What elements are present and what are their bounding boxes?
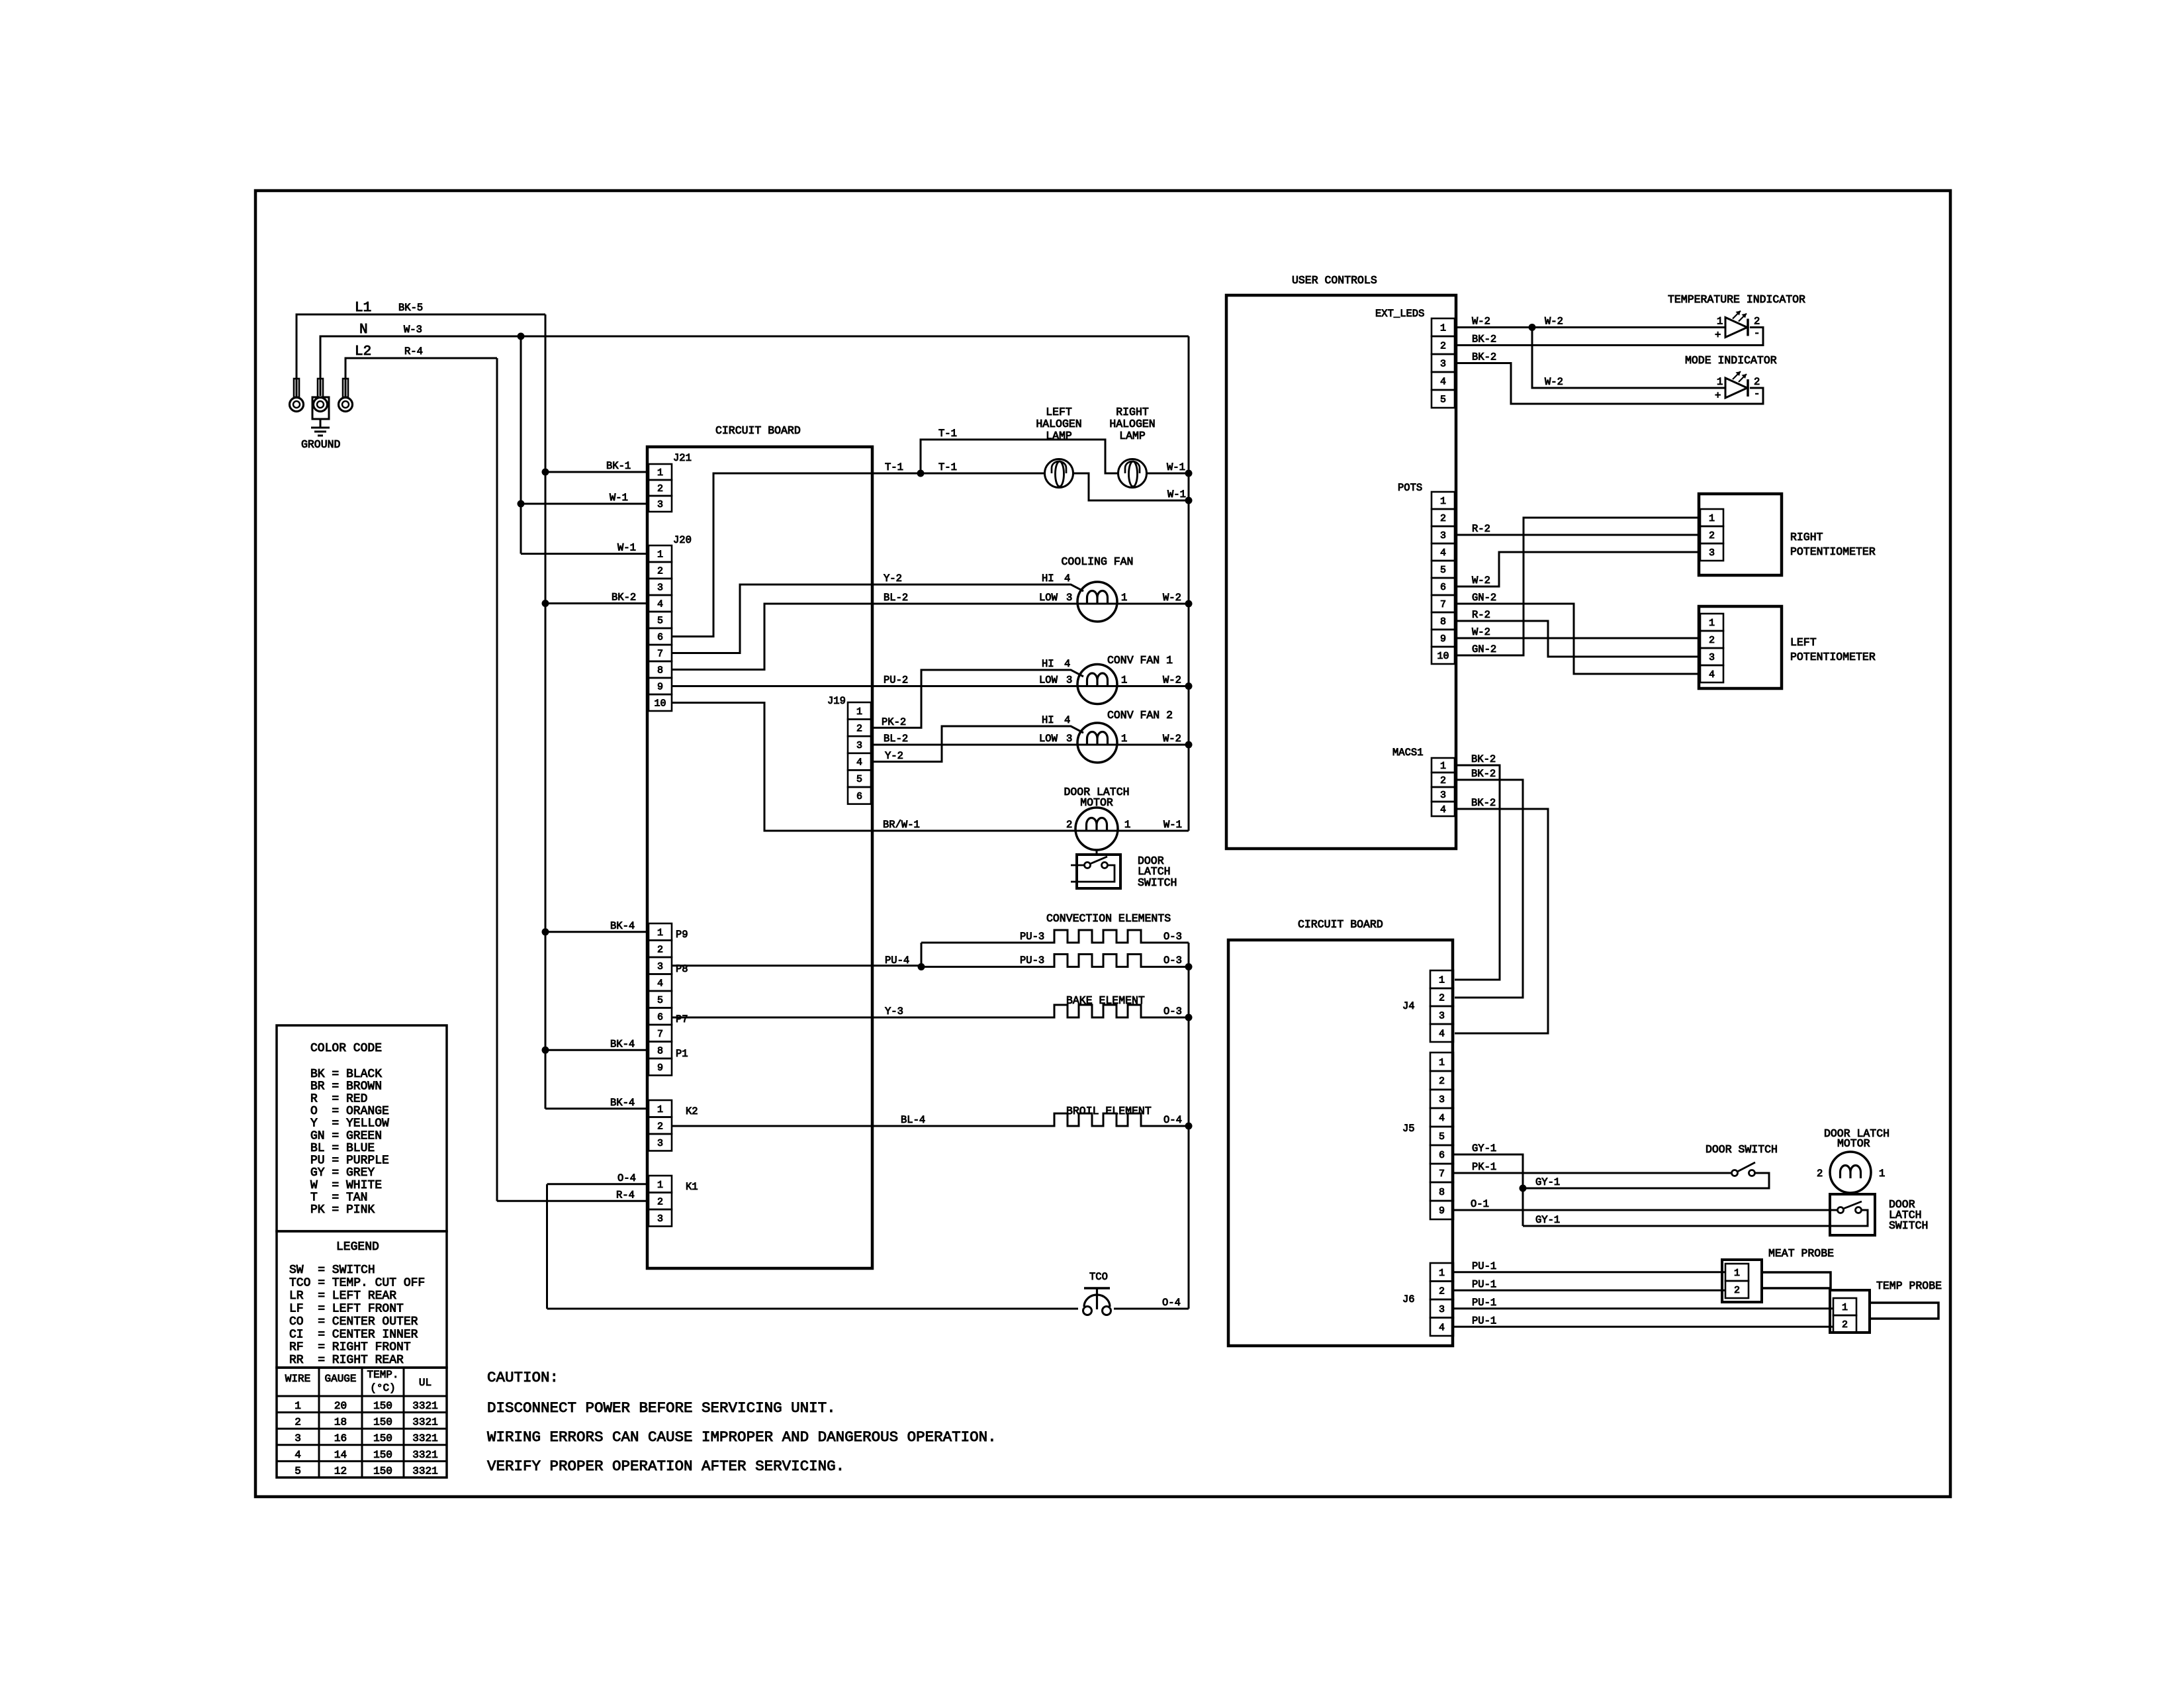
svg-text:P7: P7: [676, 1013, 688, 1025]
svg-text:8: 8: [657, 665, 663, 677]
svg-text:BK-2: BK-2: [1471, 753, 1496, 765]
svg-text:GY = GREY: GY = GREY: [310, 1166, 375, 1180]
svg-text:LEFT: LEFT: [1046, 406, 1072, 418]
svg-text:1: 1: [1121, 733, 1127, 745]
svg-text:2: 2: [856, 723, 862, 734]
svg-text:WIRE: WIRE: [285, 1373, 310, 1385]
svg-text:CIRCUIT BOARD: CIRCUIT BOARD: [715, 424, 801, 437]
svg-text:4: 4: [1064, 658, 1070, 670]
svg-text:PU-1: PU-1: [1472, 1297, 1496, 1309]
svg-text:+: +: [1715, 390, 1721, 402]
svg-text:5: 5: [657, 616, 663, 627]
svg-text:CI = CENTER INNER: CI = CENTER INNER: [289, 1328, 418, 1341]
svg-text:Y = YELLOW: Y = YELLOW: [310, 1117, 389, 1131]
svg-text:WIRING ERRORS CAN CAUSE IMPROP: WIRING ERRORS CAN CAUSE IMPROPER AND DAN…: [487, 1429, 997, 1446]
svg-text:N: N: [359, 322, 368, 338]
svg-text:T-1: T-1: [885, 461, 903, 473]
svg-text:J19: J19: [827, 695, 846, 707]
svg-text:UL: UL: [419, 1377, 432, 1389]
svg-text:3: 3: [1440, 359, 1446, 370]
svg-text:W = WHITE: W = WHITE: [310, 1179, 382, 1192]
svg-text:1: 1: [1709, 618, 1715, 629]
svg-text:R = RED: R = RED: [310, 1092, 367, 1105]
svg-text:1: 1: [1717, 316, 1723, 328]
svg-text:TCO = TEMP. CUT OFF: TCO = TEMP. CUT OFF: [289, 1276, 425, 1289]
svg-text:W-2: W-2: [1472, 575, 1490, 586]
svg-text:RIGHT: RIGHT: [1116, 406, 1149, 418]
svg-text:W-2: W-2: [1472, 626, 1490, 638]
svg-text:SWITCH: SWITCH: [1889, 1219, 1928, 1232]
svg-text:O-3: O-3: [1163, 1006, 1182, 1017]
svg-text:+: +: [1715, 330, 1721, 342]
svg-text:3321: 3321: [412, 1400, 437, 1412]
svg-text:TEMP PROBE: TEMP PROBE: [1876, 1280, 1942, 1292]
svg-text:4: 4: [856, 757, 862, 769]
svg-text:5: 5: [1440, 395, 1446, 406]
svg-text:HALOGEN: HALOGEN: [1109, 418, 1155, 430]
svg-text:W-1: W-1: [1167, 489, 1186, 500]
svg-text:3: 3: [657, 583, 663, 594]
svg-text:MODE INDICATOR: MODE INDICATOR: [1685, 354, 1777, 367]
svg-text:POTS: POTS: [1398, 482, 1422, 494]
svg-text:1: 1: [1440, 761, 1446, 772]
svg-text:VERIFY PROPER OPERATION AFTER: VERIFY PROPER OPERATION AFTER SERVICING.: [487, 1458, 844, 1475]
svg-text:TEMP.: TEMP.: [367, 1369, 398, 1381]
svg-text:1: 1: [856, 706, 862, 718]
svg-text:RF = RIGHT FRONT: RF = RIGHT FRONT: [289, 1341, 411, 1354]
svg-text:BK-4: BK-4: [610, 1097, 635, 1109]
svg-text:2: 2: [657, 944, 663, 955]
svg-text:3: 3: [1066, 592, 1072, 604]
svg-text:3: 3: [1440, 790, 1446, 801]
svg-text:4: 4: [1439, 1113, 1445, 1124]
svg-text:PU-1: PU-1: [1472, 1278, 1496, 1290]
svg-text:R-4: R-4: [404, 346, 423, 357]
svg-text:6: 6: [1439, 1150, 1445, 1161]
svg-text:3321: 3321: [412, 1449, 437, 1461]
svg-text:BK-2: BK-2: [1471, 768, 1496, 780]
svg-text:PU-2: PU-2: [884, 675, 908, 686]
svg-text:3: 3: [1439, 1304, 1445, 1315]
svg-text:BK-4: BK-4: [610, 1038, 635, 1050]
svg-text:14: 14: [334, 1449, 347, 1461]
svg-text:1: 1: [1440, 323, 1446, 334]
svg-text:6: 6: [657, 1011, 663, 1023]
svg-text:4: 4: [657, 978, 663, 989]
svg-text:2: 2: [1842, 1319, 1848, 1331]
svg-text:3: 3: [657, 1213, 663, 1225]
svg-text:10: 10: [654, 698, 666, 710]
svg-text:CIRCUIT BOARD: CIRCUIT BOARD: [1298, 918, 1383, 931]
svg-text:2: 2: [1440, 775, 1446, 786]
svg-text:GY-1: GY-1: [1472, 1143, 1496, 1154]
svg-text:7: 7: [1439, 1168, 1445, 1180]
svg-text:5: 5: [856, 774, 862, 785]
svg-text:BK-2: BK-2: [1472, 352, 1496, 363]
svg-text:3: 3: [657, 499, 663, 510]
svg-text:LAMP: LAMP: [1119, 430, 1146, 442]
svg-text:LEGEND: LEGEND: [336, 1241, 379, 1254]
svg-text:2: 2: [657, 566, 663, 577]
svg-text:POTENTIOMETER: POTENTIOMETER: [1790, 651, 1876, 663]
svg-text:LEFT: LEFT: [1790, 636, 1817, 649]
svg-text:5: 5: [295, 1465, 301, 1477]
svg-text:J5: J5: [1402, 1123, 1415, 1135]
svg-text:3: 3: [295, 1432, 301, 1444]
svg-text:1: 1: [1121, 592, 1127, 604]
svg-text:4: 4: [1440, 804, 1446, 816]
svg-text:O-4: O-4: [617, 1172, 636, 1184]
svg-text:HI: HI: [1042, 714, 1054, 726]
svg-text:J4: J4: [1402, 1000, 1415, 1012]
svg-text:Y-3: Y-3: [885, 1006, 903, 1017]
svg-text:COLOR CODE: COLOR CODE: [310, 1042, 382, 1055]
svg-text:1: 1: [1709, 513, 1715, 524]
svg-text:3: 3: [1439, 1011, 1445, 1022]
svg-text:8: 8: [1440, 616, 1446, 628]
svg-text:5: 5: [1439, 1131, 1445, 1143]
svg-text:150: 150: [373, 1432, 392, 1444]
svg-text:PU-1: PU-1: [1472, 1260, 1496, 1272]
svg-text:2: 2: [1066, 819, 1072, 831]
svg-text:3321: 3321: [412, 1417, 437, 1429]
svg-text:3: 3: [856, 740, 862, 751]
svg-text:BK-1: BK-1: [606, 460, 631, 472]
svg-text:USER CONTROLS: USER CONTROLS: [1292, 274, 1377, 287]
svg-text:1: 1: [1124, 819, 1130, 831]
svg-text:COOLING FAN: COOLING FAN: [1062, 555, 1134, 568]
svg-text:DISCONNECT POWER BEFORE SERVIC: DISCONNECT POWER BEFORE SERVICING UNIT.: [487, 1399, 836, 1417]
svg-text:4: 4: [1440, 547, 1446, 559]
svg-text:Y-2: Y-2: [885, 750, 903, 762]
svg-text:2: 2: [1754, 376, 1760, 388]
svg-text:1: 1: [1734, 1268, 1740, 1279]
svg-text:4: 4: [1439, 1322, 1445, 1333]
svg-text:GAUGE: GAUGE: [324, 1373, 356, 1385]
svg-text:7: 7: [657, 1029, 663, 1040]
svg-text:1: 1: [1842, 1302, 1848, 1313]
svg-text:TCO: TCO: [1089, 1271, 1108, 1283]
svg-text:GY-1: GY-1: [1535, 1214, 1560, 1226]
svg-text:2: 2: [657, 1121, 663, 1132]
svg-text:-: -: [1754, 328, 1760, 340]
svg-text:T = TAN: T = TAN: [310, 1192, 367, 1205]
svg-text:2: 2: [1709, 530, 1715, 541]
svg-text:3: 3: [1709, 652, 1715, 663]
svg-text:GN-2: GN-2: [1472, 643, 1496, 655]
svg-text:1: 1: [657, 467, 663, 479]
svg-text:LOW: LOW: [1039, 675, 1058, 686]
svg-text:CAUTION:: CAUTION:: [487, 1369, 559, 1386]
svg-text:PK = PINK: PK = PINK: [310, 1203, 375, 1217]
svg-text:3321: 3321: [412, 1465, 437, 1477]
svg-text:Y-2: Y-2: [884, 573, 902, 585]
svg-text:9: 9: [657, 682, 663, 693]
svg-text:6: 6: [1440, 582, 1446, 593]
svg-text:J6: J6: [1402, 1293, 1415, 1305]
svg-text:150: 150: [373, 1465, 392, 1477]
svg-text:GN-2: GN-2: [1472, 592, 1496, 604]
svg-text:BK-4: BK-4: [610, 920, 635, 932]
svg-text:2: 2: [1734, 1285, 1740, 1296]
svg-text:6: 6: [657, 632, 663, 643]
svg-text:W-1: W-1: [610, 492, 628, 504]
svg-text:GY-1: GY-1: [1535, 1176, 1560, 1188]
svg-text:GN = GREEN: GN = GREEN: [310, 1129, 382, 1143]
svg-text:9: 9: [1440, 633, 1446, 645]
svg-text:3321: 3321: [412, 1432, 437, 1444]
svg-text:R-4: R-4: [616, 1189, 635, 1201]
svg-text:4: 4: [1064, 714, 1070, 726]
svg-text:3: 3: [1439, 1094, 1445, 1105]
svg-text:2: 2: [1754, 316, 1760, 328]
svg-text:(°C): (°C): [370, 1382, 395, 1394]
svg-text:W-1: W-1: [1167, 461, 1185, 473]
svg-text:20: 20: [334, 1400, 347, 1412]
svg-text:T-1: T-1: [938, 428, 957, 440]
svg-text:2: 2: [657, 1196, 663, 1207]
svg-text:1: 1: [295, 1400, 301, 1412]
svg-text:T-1: T-1: [938, 461, 957, 473]
svg-text:GROUND: GROUND: [301, 438, 341, 451]
svg-text:16: 16: [334, 1432, 347, 1444]
svg-text:1: 1: [1439, 1057, 1445, 1068]
svg-text:3: 3: [1440, 530, 1446, 541]
svg-text:R-2: R-2: [1472, 609, 1490, 621]
svg-text:K2: K2: [686, 1105, 698, 1117]
svg-text:O-4: O-4: [1162, 1297, 1181, 1309]
svg-text:W-1: W-1: [617, 542, 636, 554]
svg-text:2: 2: [295, 1417, 301, 1429]
svg-text:MEAT PROBE: MEAT PROBE: [1768, 1247, 1834, 1260]
svg-text:K1: K1: [686, 1181, 698, 1193]
svg-text:J20: J20: [673, 534, 692, 546]
svg-text:EXT_LEDS: EXT_LEDS: [1375, 308, 1424, 320]
svg-text:BK-2: BK-2: [612, 592, 636, 604]
svg-text:O = ORANGE: O = ORANGE: [310, 1105, 389, 1118]
svg-text:1: 1: [1439, 1268, 1445, 1279]
svg-text:O-3: O-3: [1163, 931, 1182, 943]
svg-text:MOTOR: MOTOR: [1837, 1137, 1870, 1150]
svg-text:CONVECTION ELEMENTS: CONVECTION ELEMENTS: [1046, 912, 1171, 925]
svg-text:5: 5: [1440, 565, 1446, 576]
svg-text:P1: P1: [676, 1048, 688, 1060]
svg-text:1: 1: [657, 549, 663, 561]
svg-text:BL = BLUE: BL = BLUE: [310, 1142, 375, 1155]
svg-text:MACS1: MACS1: [1392, 747, 1424, 759]
svg-text:4: 4: [657, 599, 663, 610]
svg-text:BL-4: BL-4: [901, 1114, 925, 1126]
svg-text:PU-3: PU-3: [1020, 955, 1044, 966]
svg-text:3: 3: [657, 1138, 663, 1149]
svg-text:SWITCH: SWITCH: [1138, 876, 1177, 889]
svg-text:2: 2: [1440, 513, 1446, 524]
svg-text:W-2: W-2: [1545, 376, 1563, 388]
svg-text:BK-2: BK-2: [1472, 334, 1496, 346]
svg-text:10: 10: [1437, 651, 1449, 662]
svg-text:CONV FAN 1: CONV FAN 1: [1107, 654, 1173, 667]
svg-text:12: 12: [334, 1465, 347, 1477]
svg-text:J21: J21: [673, 452, 692, 464]
svg-text:PK-2: PK-2: [882, 716, 906, 728]
svg-text:3: 3: [1066, 675, 1072, 686]
svg-text:O-1: O-1: [1471, 1198, 1489, 1210]
svg-text:2: 2: [657, 483, 663, 494]
svg-text:2: 2: [1439, 1076, 1445, 1087]
svg-text:R-2: R-2: [1472, 523, 1490, 535]
svg-text:BL-2: BL-2: [884, 733, 908, 745]
svg-text:4: 4: [1709, 669, 1715, 680]
svg-text:1: 1: [1717, 376, 1723, 388]
svg-text:9: 9: [657, 1062, 663, 1074]
svg-text:1: 1: [1879, 1168, 1885, 1180]
svg-text:8: 8: [1439, 1187, 1445, 1198]
svg-text:PU = PURPLE: PU = PURPLE: [310, 1154, 389, 1168]
svg-text:1: 1: [1121, 675, 1127, 686]
svg-text:1: 1: [1439, 975, 1445, 986]
svg-text:1: 1: [657, 1180, 663, 1191]
svg-text:DOOR SWITCH: DOOR SWITCH: [1706, 1143, 1778, 1156]
svg-text:2: 2: [1817, 1168, 1823, 1180]
svg-text:150: 150: [373, 1400, 392, 1412]
svg-text:HI: HI: [1042, 658, 1054, 670]
svg-text:BR = BROWN: BR = BROWN: [310, 1080, 382, 1094]
svg-text:W-3: W-3: [404, 324, 422, 336]
svg-text:BK-5: BK-5: [398, 302, 423, 314]
svg-text:BK-2: BK-2: [1471, 797, 1496, 809]
svg-text:LAMP: LAMP: [1046, 430, 1072, 442]
svg-text:LOW: LOW: [1039, 592, 1058, 604]
svg-text:5: 5: [657, 995, 663, 1006]
svg-text:4: 4: [1440, 377, 1446, 388]
svg-text:LF = LEFT FRONT: LF = LEFT FRONT: [289, 1302, 404, 1315]
svg-text:L1: L1: [355, 301, 371, 316]
svg-text:150: 150: [373, 1449, 392, 1461]
svg-text:BK = BLACK: BK = BLACK: [310, 1068, 382, 1081]
svg-text:POTENTIOMETER: POTENTIOMETER: [1790, 545, 1876, 558]
svg-text:HALOGEN: HALOGEN: [1036, 418, 1081, 430]
svg-text:P9: P9: [676, 929, 688, 941]
svg-text:CO = CENTER OUTER: CO = CENTER OUTER: [289, 1315, 418, 1329]
svg-text:9: 9: [1439, 1205, 1445, 1217]
svg-text:BL-2: BL-2: [884, 592, 908, 604]
svg-text:4: 4: [295, 1449, 301, 1461]
svg-text:3: 3: [1066, 733, 1072, 745]
svg-text:SW = SWITCH: SW = SWITCH: [289, 1264, 375, 1277]
svg-text:PK-1: PK-1: [1472, 1161, 1496, 1173]
svg-text:CONV FAN 2: CONV FAN 2: [1107, 709, 1173, 722]
svg-text:1: 1: [1440, 496, 1446, 507]
svg-text:W-2: W-2: [1163, 733, 1181, 745]
svg-text:LOW: LOW: [1039, 733, 1058, 745]
svg-text:RR = RIGHT REAR: RR = RIGHT REAR: [289, 1354, 404, 1367]
svg-text:HI: HI: [1042, 573, 1054, 585]
svg-text:4: 4: [1439, 1029, 1445, 1040]
svg-text:18: 18: [334, 1417, 347, 1429]
svg-text:2: 2: [1439, 1286, 1445, 1297]
svg-text:3: 3: [657, 961, 663, 972]
svg-text:6: 6: [856, 791, 862, 802]
svg-text:W-1: W-1: [1163, 819, 1182, 831]
svg-text:7: 7: [1440, 599, 1446, 610]
svg-text:W-2: W-2: [1163, 592, 1181, 604]
svg-text:4: 4: [1064, 573, 1070, 585]
svg-text:O-3: O-3: [1163, 955, 1182, 966]
svg-text:2: 2: [1439, 993, 1445, 1004]
svg-text:8: 8: [657, 1045, 663, 1056]
svg-text:1: 1: [657, 1104, 663, 1115]
svg-text:7: 7: [657, 649, 663, 660]
svg-text:RIGHT: RIGHT: [1790, 531, 1823, 543]
svg-text:1: 1: [657, 927, 663, 939]
svg-text:2: 2: [1440, 341, 1446, 352]
svg-text:W-2: W-2: [1163, 675, 1181, 686]
svg-text:W-2: W-2: [1472, 316, 1490, 328]
svg-text:TEMPERATURE INDICATOR: TEMPERATURE INDICATOR: [1668, 293, 1805, 306]
svg-text:BR/W-1: BR/W-1: [883, 819, 920, 831]
svg-text:150: 150: [373, 1417, 392, 1429]
svg-text:L2: L2: [355, 344, 371, 359]
svg-text:O-4: O-4: [1163, 1114, 1182, 1126]
svg-text:3: 3: [1709, 547, 1715, 559]
svg-text:2: 2: [1709, 635, 1715, 646]
svg-text:PU-1: PU-1: [1472, 1315, 1496, 1327]
svg-text:PU-3: PU-3: [1020, 931, 1044, 943]
svg-text:W-2: W-2: [1545, 316, 1563, 328]
svg-text:-: -: [1754, 388, 1760, 400]
svg-text:LR = LEFT REAR: LR = LEFT REAR: [289, 1289, 396, 1303]
